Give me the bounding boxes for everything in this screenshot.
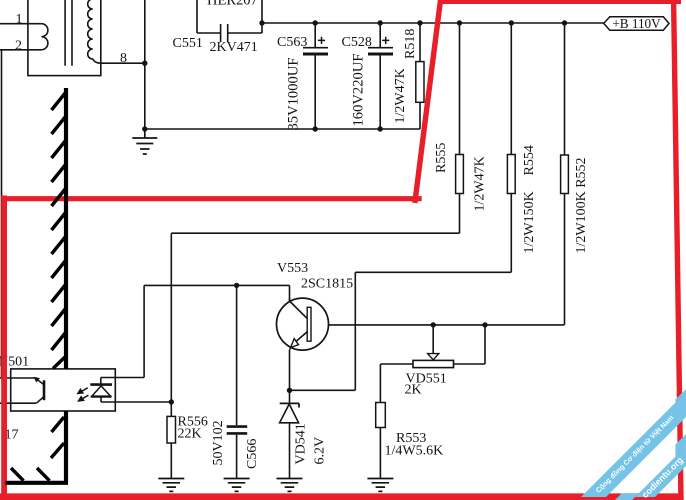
svg-text:C528: C528 (342, 35, 372, 50)
svg-text:1/2W100K R552: 1/2W100K R552 (574, 157, 589, 253)
wire R554 branch to emitter (290, 23, 512, 390)
wire +B rail (262, 22, 604, 24)
svg-text:1/4W5.6K: 1/4W5.6K (385, 444, 444, 459)
watermark stripe 2 extension over right red border (675, 434, 686, 457)
svg-text:1/2W47K: 1/2W47K (473, 156, 488, 211)
transformer primary winding (pins 1-2) (41, 24, 48, 50)
svg-text:160V220UF: 160V220UF (351, 54, 367, 127)
ground (hot, R553) (367, 479, 393, 492)
resistor R552 body (561, 155, 569, 194)
wire pin2 (0, 49, 41, 51)
wire pin1 (0, 23, 41, 25)
capacitor C563 plates (303, 37, 328, 54)
resistor R553 body (376, 403, 386, 428)
wire top feed down to ground rail (144, 0, 146, 129)
svg-text:2: 2 (15, 38, 22, 53)
svg-text:VD541: VD541 (294, 423, 309, 464)
resistor R555 body (456, 155, 464, 194)
svg-text:R518: R518 (403, 29, 418, 59)
svg-text:R554: R554 (522, 145, 537, 175)
wire C563 branch (314, 23, 316, 129)
transistor V553 base bar (307, 307, 311, 341)
wire pot right up to base (454, 325, 486, 364)
watermark stripe 2 (635, 446, 686, 497)
potentiometer VD551 body (413, 360, 454, 367)
transistor V553 circle (277, 298, 329, 350)
ground (hot, R556) (158, 479, 184, 492)
optocoupler LED (90, 378, 112, 403)
svg-text:+B 110V: +B 110V (612, 16, 661, 31)
transformer core (65, 0, 72, 66)
zener diode VD541 (280, 403, 299, 422)
ground (hot, VD541) (277, 479, 303, 492)
wire opto cathode to R556 (101, 402, 171, 479)
wire pot wiper drop (432, 325, 434, 354)
wire emitter down (289, 350, 291, 391)
svg-text:8: 8 (120, 51, 127, 66)
potentiometer VD551 wiper arrow (428, 354, 439, 360)
wire pot left to R553 (380, 364, 413, 479)
svg-text:C551: C551 (173, 36, 203, 51)
wire HER207/C551 left branch (197, 0, 221, 33)
wire HER207/C551 right branch (228, 0, 262, 33)
svg-text:R555: R555 (434, 143, 449, 173)
svg-text:6.2V: 6.2V (313, 437, 328, 465)
watermark stripe 1 extension over red border (675, 389, 686, 403)
svg-text:50V102: 50V102 (211, 420, 226, 465)
wire R555 branch (171, 23, 459, 402)
transistor V553 collector wire inside (290, 299, 308, 319)
svg-text:2K: 2K (405, 383, 422, 398)
svg-text:1/2W47K: 1/2W47K (393, 68, 408, 123)
svg-text:1: 1 (16, 12, 23, 27)
resistor R518 body (416, 62, 424, 103)
svg-text:HER207: HER207 (207, 0, 258, 9)
capacitor C566 plates (227, 427, 248, 434)
svg-text:35V1000UF: 35V1000UF (286, 58, 302, 131)
wire pin8 to junction (101, 62, 145, 64)
watermark stripe 1 (581, 392, 686, 497)
optocoupler phototransistor (35, 378, 44, 403)
wire pin2 down left edge (1, 50, 3, 378)
ground (hot, C566) (224, 479, 250, 492)
svg-text:2KV471: 2KV471 (210, 40, 258, 55)
optocoupler light arrows (77, 388, 88, 401)
svg-text:V553: V553 (277, 261, 308, 276)
resistor R556 body (167, 416, 176, 443)
wire C528 branch (379, 23, 381, 129)
optocoupler N501 box (11, 369, 116, 411)
wire collector node down to opto LED (101, 285, 144, 377)
svg-text:C566: C566 (245, 439, 260, 469)
watermark stripe 2 extension over bottom red border (615, 493, 639, 500)
svg-text:1/2W150K: 1/2W150K (522, 191, 537, 253)
transistor V553 emitter with open arrow (295, 332, 307, 343)
wire opto left leads (0, 378, 36, 403)
svg-text:C563: C563 (277, 35, 307, 50)
wire collector node horizontal (144, 285, 289, 300)
svg-text:22K: 22K (178, 427, 202, 442)
wire cold ground rail (145, 128, 420, 130)
wire zener branch (289, 390, 291, 478)
transformer secondary winding (pin 8) (88, 0, 101, 63)
resistor R554 body (507, 155, 515, 194)
isolation barrier (hot/cold divider) (6, 88, 69, 483)
capacitor C528 plates (368, 37, 393, 54)
wire C566 branch (236, 285, 238, 478)
capacitor C551 plates (221, 24, 228, 42)
svg-text:2SC1815: 2SC1815 (301, 277, 353, 292)
transformer T501 body (28, 0, 101, 76)
+B 110V net flag (604, 17, 669, 30)
wire R518 branch (419, 23, 421, 129)
ground (cold, under transformer) (132, 129, 157, 154)
wire R552 branch to base (311, 23, 565, 325)
